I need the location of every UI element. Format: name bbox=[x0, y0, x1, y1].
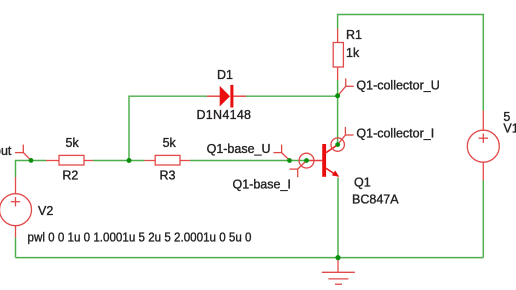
resistor R3 bbox=[145, 155, 191, 165]
voltage source V2 bbox=[0, 177, 32, 238]
svg-text:pwl 0 0 1u 0 1.0001u 5 2u 5 2.: pwl 0 0 1u 0 1.0001u 5 2u 5 2.0001u 0 5u… bbox=[28, 231, 252, 245]
wire emitter to bottom rail bbox=[337, 178, 339, 258]
wire diode branch horizontal bbox=[129, 96, 207, 160]
svg-text:Q1-base_I: Q1-base_I bbox=[233, 178, 291, 192]
svg-text:Q1-collector_U: Q1-collector_U bbox=[356, 78, 439, 92]
diode D1 bbox=[207, 85, 246, 108]
svg-text:V2: V2 bbox=[38, 204, 53, 218]
voltage source V1 bbox=[467, 111, 499, 181]
junction diode/R1/collector bbox=[335, 93, 340, 98]
svg-text:5k: 5k bbox=[163, 136, 177, 150]
node dot base_I bbox=[304, 158, 309, 163]
wire V1 bottom bbox=[482, 180, 484, 257]
probe Q1-collector_U (voltage) bbox=[338, 78, 354, 95]
transistor Q1 bbox=[310, 144, 340, 177]
svg-text:out: out bbox=[0, 144, 12, 158]
ground bbox=[322, 258, 355, 284]
resistor R1 bbox=[333, 29, 343, 81]
svg-text:BC847A: BC847A bbox=[352, 192, 399, 206]
wire bottom rail bbox=[16, 257, 484, 259]
svg-text:Q1-collector_I: Q1-collector_I bbox=[356, 126, 434, 140]
junction base/diode branch bbox=[127, 158, 132, 163]
probe Q1-base_U (voltage) bbox=[273, 145, 289, 161]
probe ut (voltage) bbox=[15, 145, 31, 161]
svg-text:Q1-base_U: Q1-base_U bbox=[207, 142, 271, 156]
wire R3 to transistor base bbox=[190, 160, 310, 162]
node dot base_U bbox=[287, 158, 292, 163]
wire R1 bottom to collector node bbox=[337, 80, 339, 145]
wire V2 bottom bbox=[15, 238, 17, 258]
svg-text:R1: R1 bbox=[346, 28, 362, 42]
junction emitter/ground/bottom rail bbox=[335, 255, 340, 260]
svg-text:R3: R3 bbox=[160, 169, 176, 183]
svg-text:5k: 5k bbox=[66, 136, 80, 150]
svg-text:V1: V1 bbox=[503, 122, 516, 136]
wire R2 to R3 bbox=[93, 160, 145, 162]
node dot collector_I bbox=[335, 142, 340, 147]
wire base net left bbox=[16, 161, 47, 178]
node dot probe ut bbox=[29, 158, 34, 163]
wire diode right to collector junction bbox=[246, 95, 338, 97]
svg-text:Q1: Q1 bbox=[354, 175, 371, 189]
svg-text:R2: R2 bbox=[62, 169, 78, 183]
svg-text:D1N4148: D1N4148 bbox=[197, 108, 252, 122]
resistor R2 bbox=[46, 155, 93, 165]
svg-text:1k: 1k bbox=[346, 46, 360, 60]
probe Q1-collector_I (current) bbox=[331, 127, 354, 151]
probe Q1-base_I (current) bbox=[290, 153, 314, 177]
wire top horizontal from R1 to V1 bbox=[338, 15, 484, 111]
svg-text:D1: D1 bbox=[217, 68, 233, 82]
